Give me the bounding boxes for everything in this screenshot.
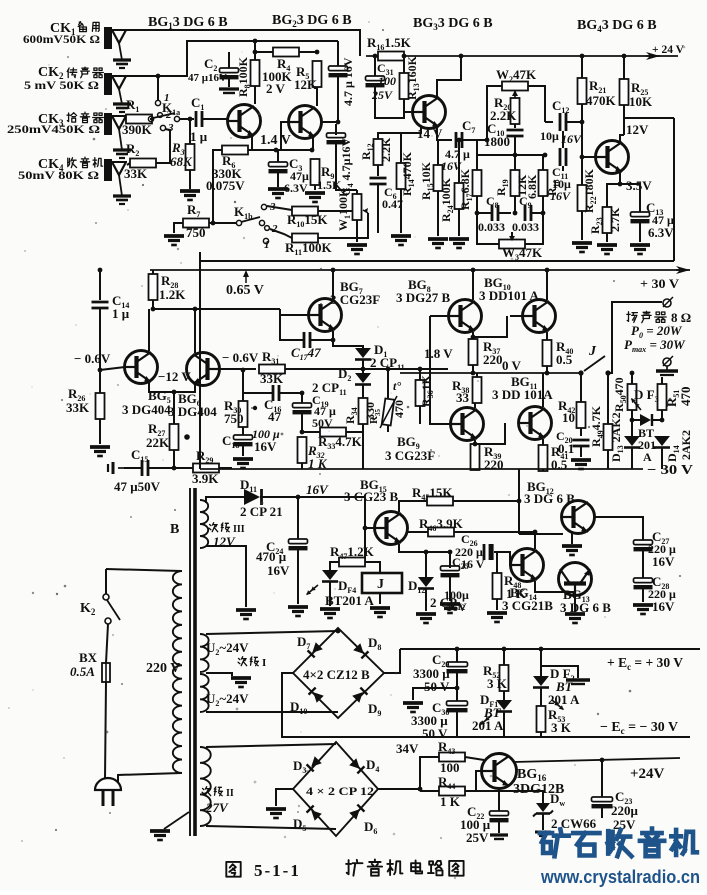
svg-text:BT201 A: BT201 A [325, 593, 374, 608]
diode D10 [309, 688, 324, 703]
wire R34 to rail3 [362, 432, 364, 469]
wire R30 top [242, 370, 244, 401]
capacitor C13 [631, 212, 650, 217]
wire W1 top [356, 190, 358, 194]
resistor R38 [473, 377, 482, 403]
LED DF4 [322, 570, 338, 580]
terminal speaker bottom [663, 358, 671, 366]
wire DF2 top [540, 649, 542, 676]
junction 34V [418, 787, 423, 792]
pot W2 arrow [514, 91, 516, 97]
wire R25 top [623, 56, 625, 79]
wire bridge1 plus [384, 649, 400, 673]
resistor R45 [427, 497, 453, 506]
ground core [150, 829, 170, 833]
svg-text:4 × 2 CP 12: 4 × 2 CP 12 [306, 784, 374, 798]
transistor BG15 [375, 512, 408, 545]
junction C8 C9 [513, 211, 518, 216]
svg-text:3 DG404: 3 DG404 [168, 404, 217, 419]
wire BG4 collector [620, 135, 624, 143]
wire BG10 collector [546, 270, 548, 300]
svg-text:220μ: 220μ [611, 803, 639, 818]
wire R37 bottom [472, 365, 474, 373]
ground R24 [449, 237, 469, 241]
resistor R27 [170, 424, 179, 450]
secondary I winding b [200, 674, 209, 712]
wire C2 top [228, 52, 230, 69]
wire R19 bottom [514, 196, 516, 213]
jack CK1 ground [113, 58, 131, 61]
wire BG12 base right [594, 517, 643, 540]
core ground lead [164, 812, 189, 829]
resistor R24 [455, 183, 464, 209]
wire C11 bottom wire [562, 166, 564, 171]
diode D6 [349, 805, 364, 820]
wire DF3 right [653, 419, 662, 421]
capacitor C25 [441, 566, 460, 571]
wire R11 right [318, 213, 368, 238]
wire R18 top [542, 155, 544, 170]
svg-text:R13​160K: R13​160K [405, 55, 421, 100]
svg-text:10: 10 [562, 410, 575, 425]
svg-text:I: I [262, 657, 266, 669]
wire R26 bottom [99, 419, 101, 444]
wire R35 top [387, 370, 389, 398]
wire C15 left [124, 467, 141, 469]
wire C10 bottom [514, 136, 516, 155]
capacitor C27 [634, 540, 653, 545]
transistor BG11 [519, 407, 552, 440]
transistor BG2 [289, 106, 322, 139]
dot R27 side [184, 434, 190, 440]
switch K1a [148, 116, 153, 121]
wire secIII top [206, 497, 244, 503]
junction R5 top [315, 50, 320, 55]
wire D14 bottom [661, 448, 663, 469]
terminal slash [663, 297, 673, 307]
resistor R7 [183, 219, 209, 228]
wire DF4 bottom [329, 582, 331, 606]
diode D3 [307, 756, 322, 771]
svg-text:470: 470 [392, 400, 406, 418]
wire top bias row [255, 51, 273, 53]
wire BG7 base [280, 309, 309, 315]
wire R48 bottom [496, 599, 498, 610]
svg-text:50 V: 50 V [424, 679, 450, 694]
wire R39 bottom [474, 469, 476, 470]
wire BG16 down [498, 789, 500, 812]
junction C23 [600, 758, 605, 763]
resistor R28 [149, 274, 158, 300]
wire R24 top [458, 140, 460, 183]
terminal slash 2 [663, 356, 673, 366]
wire C4 top [335, 124, 337, 135]
zener diode Dw [536, 803, 550, 812]
wire C6 bottom [377, 184, 379, 233]
svg-text:10K: 10K [629, 94, 653, 109]
bridge rectifier CP12 outline [293, 742, 378, 836]
svg-text:4×2 CZ12 B: 4×2 CZ12 B [303, 667, 370, 682]
junction R50 mid [630, 371, 635, 376]
ground C28 [633, 603, 653, 607]
ground C24 [288, 605, 308, 609]
wire R24 bottom [458, 209, 460, 236]
wire C14 down [99, 308, 101, 394]
resistor R49 [604, 424, 613, 450]
capacitor C30 [447, 701, 468, 706]
LED DF4 arrows [305, 583, 320, 596]
svg-text:12K: 12K [294, 77, 318, 92]
svg-text:16V: 16V [652, 599, 675, 614]
svg-text:16V: 16V [561, 132, 582, 146]
wire DF2 chassis [541, 666, 578, 678]
wire BG11 base col [475, 423, 505, 444]
svg-text:1: 1 [264, 239, 270, 251]
wire 34V up [420, 757, 439, 789]
svg-text:−12 V: −12 V [158, 369, 191, 384]
svg-text:12V: 12V [626, 122, 649, 137]
junction R46 BG14 [533, 530, 538, 535]
resistor R43 [439, 753, 465, 762]
wire R49 bottom [607, 450, 609, 469]
transistor BG14 [511, 549, 544, 582]
wire W1 bottom [356, 220, 358, 242]
svg-text:2: 2 [165, 109, 172, 121]
capacitor C8 [491, 205, 494, 221]
junction BG8 rail [471, 268, 476, 273]
wire jack3 to R1 [127, 118, 128, 120]
wire C14 top [99, 270, 101, 300]
svg-text:1 K: 1 K [440, 794, 461, 809]
wire bridge2 left [276, 789, 293, 806]
capacitor C22 [490, 811, 509, 816]
wire R30 bottom [242, 427, 244, 436]
transistor BG6 [187, 353, 220, 386]
svg-text:1: 1 [164, 92, 170, 104]
resistor R5 [313, 61, 322, 87]
svg-text:R33​4.7K: R33​4.7K [318, 434, 363, 451]
svg-text:3.9K: 3.9K [192, 471, 219, 486]
arrow 0.65V [245, 272, 247, 283]
resistor R50 [628, 384, 637, 410]
wire BG8 base [430, 315, 449, 317]
diode D13 [624, 436, 640, 446]
svg-text:16V: 16V [254, 439, 277, 454]
wire C19 top [301, 393, 303, 404]
wire W3 left [477, 213, 499, 244]
junction R8 h2 [253, 39, 258, 44]
svg-text:220 V: 220 V [146, 661, 180, 676]
LED DF3 [640, 414, 651, 426]
wire column from -30V [518, 469, 520, 534]
svg-text:R10​15K: R10​15K [287, 212, 328, 229]
wire DF1 bottom [503, 712, 505, 737]
transistor BG10 [523, 300, 556, 333]
wire R28 top [152, 270, 154, 274]
ground C3 [268, 187, 288, 191]
wire R32 bottom [301, 463, 303, 469]
wire primary top [106, 569, 181, 571]
junction R8 row [253, 50, 258, 55]
svg-text:3 K: 3 K [487, 676, 508, 691]
wire BG9 emitter [474, 440, 476, 446]
svg-text:750: 750 [224, 411, 244, 426]
wire R33 left [302, 431, 320, 433]
svg-text:16V: 16V [652, 554, 675, 569]
pot W3 [499, 240, 525, 249]
svg-text:390K: 390K [122, 122, 153, 137]
svg-text:3 DG404: 3 DG404 [122, 402, 171, 417]
resistor R26 [96, 393, 105, 419]
svg-text:201 A: 201 A [472, 718, 504, 733]
wire C13 bottom [639, 222, 641, 242]
wire C18 bottom [242, 445, 244, 456]
svg-text:33K: 33K [260, 371, 284, 386]
wire BG10 base [510, 315, 523, 317]
primary winding 220V [173, 571, 182, 773]
junction R52 [502, 647, 507, 652]
svg-text:− 0.6V: − 0.6V [74, 351, 111, 366]
wire C5 down [337, 76, 339, 124]
transistor BG7 [309, 299, 342, 332]
svg-text:68K: 68K [170, 154, 193, 169]
wire BG1 emitter [248, 135, 252, 150]
junction DF2 [539, 647, 544, 652]
ground R9 [305, 191, 325, 195]
resistor R48 [493, 573, 502, 599]
wire C8 right [499, 212, 511, 214]
wire C9 right [532, 212, 543, 214]
wire +24V bottom rail [513, 758, 680, 762]
wire R9 bottom [314, 185, 316, 190]
wire contact2 to R11 [270, 229, 292, 238]
wire base row [100, 367, 125, 370]
svg-text:3 CG21B: 3 CG21B [502, 598, 553, 613]
resistor R2 [130, 159, 156, 168]
wire R52-DF1 [503, 691, 505, 700]
svg-text:R49​4.7K: R49​4.7K [589, 405, 605, 447]
capacitor C7 [455, 132, 458, 148]
svg-text:4.7 μ 16V: 4.7 μ 16V [341, 57, 355, 106]
wire BG10 base col [473, 316, 507, 337]
svg-text:1.4 V: 1.4 V [260, 133, 291, 148]
wire D2 down [362, 385, 364, 398]
transistor BG8 [449, 300, 482, 333]
svg-text:2.2K: 2.2K [379, 137, 393, 162]
resistor R21 [578, 78, 587, 104]
junction C11 mid [543, 153, 548, 158]
svg-text:47: 47 [268, 409, 282, 424]
svg-text:R36​1K: R36​1K [419, 374, 435, 407]
wire R53 bottom [540, 732, 542, 737]
wire C27-C28 [642, 550, 644, 579]
wire R49 top [607, 373, 609, 425]
wire mid row [477, 154, 545, 156]
wire R42 bottom [580, 428, 582, 436]
LED DF1 [496, 700, 512, 710]
junction R27 [172, 390, 177, 395]
wire C27 top [642, 540, 644, 541]
svg-text:47 μ16V: 47 μ16V [188, 72, 227, 84]
ground R26 [90, 445, 110, 449]
wire C11 top [562, 131, 564, 148]
junction D12 [424, 550, 429, 555]
capacitor C29 [447, 662, 468, 667]
chassis bar DF2 [566, 678, 590, 681]
svg-text:100: 100 [378, 74, 396, 88]
arrow +30V [676, 266, 690, 274]
resistor R11 [292, 234, 318, 243]
resistor R40 [543, 340, 552, 366]
junction R37 mid [471, 371, 476, 376]
wire C2 bottom [228, 78, 230, 87]
wire R8 bottom to BG1 collector [254, 86, 256, 104]
resistor R29 [193, 464, 219, 473]
svg-text:27V: 27V [205, 800, 229, 815]
wire DF2 bottom [540, 688, 542, 707]
resistor R14 [397, 163, 406, 189]
ground bridge2 [266, 807, 286, 811]
junction BG7 rail [331, 268, 336, 273]
resistor R46 [428, 528, 454, 537]
wire BG14 collector up [534, 532, 536, 549]
wire BG5 collector [148, 309, 150, 351]
wire C22 bottom [498, 821, 500, 833]
wire R4 to R5 [299, 51, 317, 53]
junction secI top [336, 629, 341, 634]
resistor R52 [500, 665, 509, 691]
secondary I winding a [200, 634, 209, 672]
wire C20 bottom [580, 446, 582, 457]
wire W3 wiper up [511, 232, 513, 236]
resistor R31 [259, 365, 285, 374]
wire R7 right [209, 222, 236, 224]
jack CK3 ground [113, 148, 131, 151]
wire 0.65V row [153, 308, 280, 310]
junction R40 mid [545, 371, 550, 376]
capacitor C5 [329, 66, 348, 71]
wire BG13 down [574, 595, 576, 612]
svg-text:R24​100K: R24​100K [439, 177, 455, 222]
ground C15 [112, 462, 115, 474]
svg-text:750: 750 [186, 225, 206, 240]
wire R17 bottom [476, 196, 478, 213]
wire R15 top [437, 140, 439, 165]
wire W3 right [525, 213, 543, 244]
svg-text:R14​470K: R14​470K [400, 151, 416, 196]
wire D12 bottom [425, 589, 427, 611]
svg-text:0.47: 0.47 [382, 197, 403, 211]
wire R50 bottom [631, 410, 633, 436]
svg-text:+ Ec​ = + 30 V: + Ec​ = + 30 V [607, 656, 683, 672]
wire Dw bottom [542, 814, 544, 830]
diode D5 [307, 806, 322, 821]
junction C14 base [98, 368, 103, 373]
wire C26 right [494, 552, 511, 565]
diode D11 [244, 489, 260, 505]
junction DF3 r [660, 418, 665, 423]
wire R36 top [419, 370, 421, 380]
svg-text:1.2K: 1.2K [159, 287, 186, 302]
svg-text:0.033: 0.033 [512, 220, 539, 234]
wire h2 down to C5 [337, 41, 339, 66]
wire R27 top [173, 392, 175, 424]
svg-text:www.crystalradio.cn: www.crystalradio.cn [540, 867, 700, 887]
resistor R33 [320, 428, 346, 437]
svg-text:16V: 16V [267, 563, 290, 578]
junction BG6 row [193, 307, 198, 312]
svg-text:201 A: 201 A [548, 692, 580, 707]
resistor R10 [292, 207, 318, 216]
diode D7 [308, 642, 323, 657]
svg-text:0 V: 0 V [502, 358, 522, 373]
junction D row [361, 367, 366, 372]
svg-text:t°: t° [393, 379, 401, 393]
wire +30V rail [150, 269, 680, 271]
wire BG5 emitter [149, 381, 195, 392]
jack CK4 ground [113, 194, 131, 197]
svg-text:50mV 80K Ω: 50mV 80K Ω [18, 168, 99, 182]
resistor R42 [577, 402, 586, 428]
transistor BG1 [228, 105, 261, 138]
wire R51 bottom [661, 410, 663, 420]
transistor BG4 [596, 141, 629, 174]
wire R22 top [581, 157, 583, 185]
junction C16 C19 [300, 391, 305, 396]
wire C4 bottom [336, 143, 357, 190]
wire J bottom [379, 593, 381, 604]
svg-text:25V: 25V [466, 830, 489, 845]
svg-text:600mV50K Ω: 600mV50K Ω [23, 32, 100, 46]
svg-text:+ 30 V: + 30 V [640, 276, 680, 291]
ground R15 [428, 237, 448, 241]
capacitor C9 [524, 205, 527, 221]
svg-text:3 DD101 A: 3 DD101 A [479, 288, 540, 303]
chassis bar [666, 366, 668, 370]
svg-text:0.1: 0.1 [558, 441, 574, 456]
svg-text:BG4​3 DG 6 B: BG4​3 DG 6 B [577, 18, 657, 34]
capacitor C6 [370, 177, 387, 180]
wire BG11 collector [542, 373, 544, 407]
jack CK4 [104, 159, 112, 181]
junction R18 C9 [541, 211, 546, 216]
wire R12 bottom [377, 165, 379, 176]
wire BG7 collector [332, 270, 334, 301]
svg-text:470K: 470K [586, 93, 617, 108]
svg-text:3 DD 101A: 3 DD 101A [492, 387, 553, 402]
wire BG4 emitter [619, 171, 621, 184]
svg-text:3 DG27 B: 3 DG27 B [396, 290, 451, 305]
wire R14 top [400, 133, 402, 163]
wire DF3 left [632, 419, 640, 421]
wire C23 column [601, 760, 603, 797]
wire +Ec rail [400, 648, 700, 650]
capacitor C2 [220, 68, 239, 73]
wire R52 top [503, 649, 505, 666]
resistor R17 [473, 170, 482, 196]
wire R34 bottom [362, 424, 364, 432]
svg-text:− Ec​ = − 30 V: − Ec​ = − 30 V [600, 720, 678, 736]
wire BG14 emitter [535, 581, 575, 596]
ground D12 [416, 612, 436, 616]
capacitor C24 [289, 539, 308, 544]
svg-text:J: J [588, 344, 597, 359]
wire R10 right [318, 210, 354, 212]
wire BG4 base [582, 122, 595, 157]
ground BG13 [565, 612, 585, 616]
wire R45 right [453, 500, 519, 502]
wire K2 top [105, 569, 107, 594]
